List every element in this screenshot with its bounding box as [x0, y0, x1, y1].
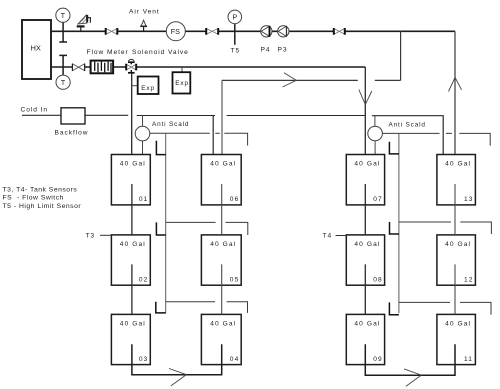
valve V1 top pipe [106, 28, 118, 35]
svg-text:08: 08 [373, 276, 383, 283]
union bracket row3 left [156, 302, 166, 313]
union bracket row2 left [156, 222, 165, 235]
pump P4 [261, 26, 272, 37]
tank 03 [111, 314, 150, 364]
svg-text:P: P [233, 15, 238, 22]
svg-text:13: 13 [464, 196, 474, 203]
tank 07 [346, 155, 384, 205]
svg-text:40 Gal: 40 Gal [120, 161, 146, 168]
backflow preventer box [61, 108, 85, 124]
svg-text:T3: T3 [86, 233, 96, 240]
wire stub to Exp 2 [181, 67, 183, 72]
wire left mixed line row1 [150, 133, 248, 145]
valve V2 top pipe [206, 28, 218, 35]
wire tempered header mid segment [227, 115, 366, 117]
svg-text:HX: HX [31, 44, 41, 53]
svg-text:40 Gal: 40 Gal [445, 320, 471, 327]
wire stub to Exp 1 [132, 85, 138, 87]
flow arrow return riser up [449, 78, 462, 92]
svg-text:Flow Meter: Flow Meter [87, 49, 129, 56]
flow arrow bottom left [169, 369, 186, 386]
wire row3 connector left [166, 302, 248, 313]
valve VA lower pipe [72, 64, 84, 71]
wire cold in line [22, 114, 128, 116]
svg-text:P4: P4 [261, 47, 271, 54]
tank 08 [346, 235, 384, 285]
wire tank internals col3 [364, 184, 366, 314]
legend [3, 187, 82, 210]
HX heat exchanger [22, 20, 51, 79]
svg-text:Cold In: Cold In [21, 107, 49, 114]
svg-text:Anti Scald: Anti Scald [152, 121, 189, 128]
svg-text:02: 02 [139, 276, 149, 283]
svg-text:40 Gal: 40 Gal [445, 241, 471, 248]
svg-text:40 Gal: 40 Gal [354, 241, 380, 248]
svg-text:40 Gal: 40 Gal [120, 241, 146, 248]
tank 05 [201, 235, 241, 285]
wire lower pipe HX to solenoid run [51, 66, 365, 68]
wire riser x400 [400, 31, 402, 80]
svg-text:T5 - High Limit Sensor: T5 - High Limit Sensor [3, 203, 82, 210]
svg-text:Exp: Exp [175, 80, 189, 87]
svg-text:FS: FS [171, 27, 180, 36]
wire return header y80 [222, 79, 401, 81]
flow switch FS circle [166, 22, 185, 41]
wire tempered header right segment [372, 116, 443, 155]
wire left mixed riser [165, 133, 167, 313]
wire row3 connector right [399, 302, 491, 314]
svg-text:T5: T5 [231, 48, 241, 55]
anti-scald valve left [135, 126, 150, 154]
svg-text:09: 09 [373, 356, 383, 363]
svg-text:Anti Scald: Anti Scald [389, 122, 426, 129]
svg-text:01: 01 [139, 196, 149, 203]
flow meter [91, 61, 114, 74]
svg-text:40 Gal: 40 Gal [354, 161, 380, 168]
flow arrow return header [283, 73, 297, 87]
tank 13 [437, 155, 476, 205]
union bracket row1 right [389, 142, 399, 154]
expansion tank Exp1 [138, 77, 159, 95]
svg-text:05: 05 [230, 276, 240, 283]
wire hot return riser col4 [454, 31, 456, 154]
flow arrow hot drop down [359, 90, 372, 105]
wire right mixed line row1 [382, 133, 490, 145]
wire tempered header left segment [137, 115, 215, 117]
wire stub down to left anti-scald [142, 116, 144, 127]
svg-text:Air Vent: Air Vent [129, 9, 160, 16]
wire tank internals col2 [221, 184, 223, 314]
svg-text:40 Gal: 40 Gal [354, 320, 380, 327]
wire solenoid drop to tank 01 [131, 73, 133, 155]
svg-text:07: 07 [373, 196, 383, 203]
svg-text:06: 06 [230, 196, 240, 203]
wire col2 riser top [221, 80, 223, 154]
tank 01 [111, 155, 150, 205]
label T4 with lead [323, 233, 347, 240]
valve V3 top pipe [334, 28, 345, 35]
svg-text:11: 11 [464, 356, 473, 363]
svg-text:Solenoid Valve: Solenoid Valve [132, 49, 189, 56]
svg-text:FS - Flow Switch: FS - Flow Switch [3, 195, 64, 202]
wire stub down to right anti-scald [374, 116, 376, 127]
svg-text:T: T [61, 13, 66, 20]
svg-text:T4: T4 [323, 233, 333, 240]
pump P3 [278, 26, 289, 37]
svg-text:04: 04 [230, 356, 240, 363]
tank 09 [346, 314, 384, 364]
svg-text:40 Gal: 40 Gal [120, 320, 146, 327]
sensor T top circle [56, 8, 70, 42]
wire hot drop right group [364, 67, 366, 154]
relief valve [77, 15, 91, 31]
svg-text:Exp: Exp [141, 85, 155, 92]
svg-text:03: 03 [139, 356, 149, 363]
sensor T bottom circle [56, 55, 70, 89]
wire top pipe HX to right corner [51, 30, 455, 32]
sensor P circle with T5 stem [228, 10, 242, 45]
flow arrow bottom right [404, 369, 421, 386]
svg-text:40 Gal: 40 Gal [445, 161, 471, 168]
svg-text:T3, T4- Tank Sensors: T3, T4- Tank Sensors [3, 187, 78, 194]
wire row2 connector left [166, 222, 248, 235]
wire bottom manifold left [132, 344, 222, 375]
tank 11 [437, 314, 476, 364]
anti-scald valve right [368, 126, 383, 154]
wire row2 connector right [399, 222, 492, 234]
air vent [140, 20, 147, 31]
tank 02 [111, 235, 150, 285]
tank 06 [201, 155, 241, 205]
label T3 with lead [86, 233, 112, 240]
svg-text:P3: P3 [278, 47, 288, 54]
solenoid valve [126, 59, 136, 72]
tank 12 [437, 235, 476, 285]
union bracket row2 right [390, 222, 399, 234]
wire tank internals col4 [454, 184, 456, 314]
union bracket row3 right [389, 302, 399, 314]
wire right mixed riser [398, 133, 400, 313]
union bracket row1 left [156, 141, 165, 155]
svg-text:40 Gal: 40 Gal [210, 241, 236, 248]
svg-text:40 Gal: 40 Gal [210, 161, 236, 168]
expansion tank Exp2 [173, 72, 191, 93]
svg-text:12: 12 [464, 276, 474, 283]
wire drop to tank 06 [212, 116, 214, 155]
tank 04 [201, 314, 241, 364]
svg-text:T: T [61, 80, 66, 87]
wire bottom manifold right [365, 344, 455, 375]
svg-text:Backflow: Backflow [55, 130, 89, 137]
svg-text:40 Gal: 40 Gal [210, 320, 236, 327]
wire tank internals col1 [131, 184, 133, 314]
